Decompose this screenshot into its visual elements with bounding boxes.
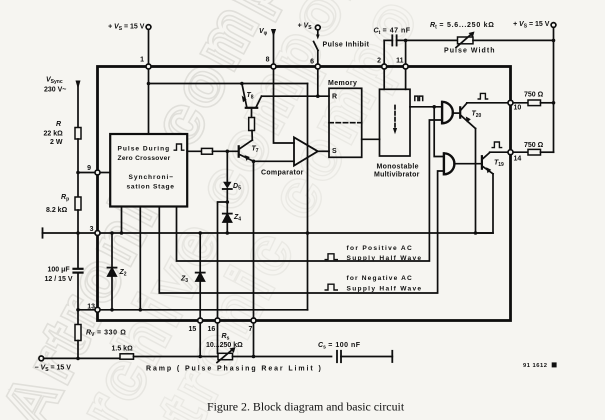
svg-text:100 μF: 100 μF — [48, 267, 71, 274]
svg-text:9: 9 — [87, 165, 91, 172]
Vphi terminal — [271, 29, 276, 37]
node junction pin15-rail — [198, 355, 202, 359]
wire pin 1 to sync stage top — [148, 68, 150, 134]
svg-text:10: 10 — [514, 105, 522, 112]
svg-text:Comparator: Comparator — [261, 170, 304, 177]
wire pin3 / emitter long line — [43, 232, 494, 234]
potentiometer Rs 10..250k — [218, 353, 233, 359]
svg-text:230 V~: 230 V~ — [44, 87, 66, 94]
zener Z2 — [111, 233, 113, 267]
svg-text:14: 14 — [514, 156, 522, 163]
terminal -Vs — [39, 356, 44, 361]
svg-text:13: 13 — [87, 304, 95, 311]
svg-text:2: 2 — [377, 58, 381, 65]
svg-text:1.5 kΩ: 1.5 kΩ — [112, 346, 134, 353]
wire switch to pin 6 — [317, 51, 319, 64]
capacitor Cs 100nF — [336, 351, 338, 362]
wire Cs to end — [341, 356, 392, 358]
synchronisation stage box — [110, 134, 187, 207]
wire sync bottom line 1 — [121, 207, 123, 234]
wire resistor to T7 base — [213, 150, 239, 152]
monostable box — [380, 89, 411, 156]
svg-text:Monostable: Monostable — [377, 164, 419, 171]
potentiometer Rt pulse width — [458, 37, 474, 44]
wire pin1 branch vertical down to pin13 net — [307, 84, 309, 310]
AND gate G1 — [442, 102, 453, 124]
node junction crossing blob — [306, 231, 310, 235]
node junction sync line1 — [120, 231, 124, 235]
wire pin 14 to 750 resistor — [512, 151, 528, 153]
mark registered dot — [552, 362, 557, 367]
pin 1 — [146, 64, 151, 69]
svg-text:10...250 kΩ: 10...250 kΩ — [206, 342, 243, 349]
resistor Rp 8.2k — [75, 197, 81, 210]
node junction D5 top — [226, 150, 230, 154]
pin 2 — [382, 64, 387, 69]
wire sync bottom line 4 to positive bus — [177, 120, 443, 261]
wire to pin 9 — [78, 172, 95, 174]
wire pin 8 down to comparator — [274, 68, 295, 143]
wire gate2 top input feed — [434, 107, 444, 157]
svg-text:6: 6 — [310, 59, 314, 66]
watermark diagonal outline text — [0, 0, 432, 420]
AND gate G2 — [444, 153, 455, 174]
svg-text:Zero Crossover: Zero Crossover — [118, 155, 171, 162]
capacitor 100uF electrolytic — [74, 268, 83, 270]
Vsync terminal — [76, 81, 81, 90]
svg-text:12 / 15 V: 12 / 15 V — [45, 276, 73, 283]
wire T19 emitter down and left — [476, 174, 494, 233]
wire T7 emitter down to pin 7 — [253, 161, 255, 318]
zener Z3 — [199, 233, 201, 272]
dashed divider memory — [329, 122, 362, 124]
wire pin 7 below box to rail — [253, 323, 255, 357]
svg-text:15: 15 — [189, 326, 197, 333]
wire to Rv — [77, 310, 79, 325]
pin 16 — [215, 318, 220, 323]
IC outline main box — [98, 67, 511, 321]
resistor sync output — [202, 148, 213, 154]
sync output wire — [187, 150, 201, 152]
node junction pin6-R — [316, 94, 320, 98]
pulse glyph negative bus — [325, 284, 339, 290]
svg-text:22 kΩ: 22 kΩ — [44, 131, 64, 138]
node junction pin11-Ct — [404, 39, 408, 43]
dashed arrow inside monostable — [394, 106, 396, 129]
svg-text:16: 16 — [208, 326, 216, 333]
svg-text:750 Ω: 750 Ω — [524, 92, 544, 99]
resistor Rv 330 — [75, 325, 81, 341]
svg-text:Pulse Width: Pulse Width — [444, 48, 496, 55]
resistor 750 Ohm lower — [528, 149, 541, 155]
node junction pin9 branch — [76, 171, 80, 175]
wire pin 2 up to Ct — [383, 40, 385, 64]
node junction sync line2 bottom — [139, 308, 143, 312]
capacitor Ct 47nF — [391, 35, 393, 45]
wire T19 collector to pin 14 — [490, 151, 509, 153]
svg-text:sation Stage: sation Stage — [127, 183, 175, 190]
wire monostable output — [410, 106, 442, 108]
pin 13 — [95, 307, 100, 312]
wire rail to Rs — [134, 356, 219, 358]
node junction rail-750 — [552, 101, 556, 105]
wire G1 output to T20 — [452, 112, 459, 114]
wire sync bottom line 2 — [139, 207, 141, 310]
pin 7 — [251, 318, 256, 323]
resistor 750 Ohm upper — [528, 100, 541, 106]
wire Ct to Rt — [397, 39, 458, 41]
wire pin13 line — [78, 309, 308, 311]
node junction rail-Rt — [552, 39, 556, 43]
terminal end bar right — [391, 351, 393, 362]
svg-text:Pulse Inhibit: Pulse Inhibit — [323, 42, 370, 49]
switch pulse inhibit stub with arrow — [317, 30, 319, 36]
svg-text:for Positive AC: for Positive AC — [347, 245, 414, 252]
wire pin 11 up — [405, 40, 407, 64]
svg-text:Supply Half Wave: Supply Half Wave — [347, 255, 423, 262]
terminal end bar pin3 line — [42, 228, 44, 237]
op-amp comparator — [294, 137, 318, 165]
svg-text:Figure 2. Block diagram and b: Figure 2. Block diagram and basic circui… — [207, 400, 405, 414]
pulse glyph monostable output double — [415, 96, 423, 101]
node junction T20 emitter — [474, 231, 478, 235]
node junction Rv-rail — [76, 357, 80, 361]
svg-text:11: 11 — [396, 58, 404, 65]
wire pin 9 to sync stage — [100, 172, 110, 174]
wire pin 11 down to monostable — [405, 68, 407, 89]
pulse glyph T20 output — [478, 93, 489, 99]
svg-text:R: R — [56, 121, 61, 128]
wire T20 emitter down — [475, 129, 477, 234]
pulse glyph T19 output — [492, 142, 503, 148]
svg-text:2 W: 2 W — [50, 139, 63, 146]
memory box — [329, 88, 362, 157]
wire G2 output to T19 — [454, 163, 481, 165]
pin 10 — [508, 100, 513, 105]
zener Z4 — [223, 214, 232, 222]
pin 6 — [315, 64, 320, 69]
pin 14 — [508, 150, 513, 155]
wire Vphi to pin 8 — [273, 35, 275, 64]
svg-text:7: 7 — [249, 326, 253, 333]
transistor T20 — [459, 107, 461, 117]
+Vs inhibit terminal — [315, 25, 320, 30]
wire memory to monostable — [362, 138, 380, 140]
transistor T8 — [240, 82, 244, 86]
node junction gate feed — [432, 105, 436, 109]
svg-text:Memory: Memory — [328, 80, 357, 87]
resistor T8 emitter — [249, 118, 255, 131]
svg-text:Supply Half Wave: Supply Half Wave — [347, 285, 423, 292]
diode D5 — [226, 151, 228, 182]
wire pin 15 below box to rail — [199, 323, 201, 357]
svg-text:Pulse During: Pulse During — [118, 145, 171, 152]
wire R to Rp — [77, 139, 79, 197]
svg-text:Synchroni−: Synchroni− — [129, 174, 175, 181]
+Vs=15V supply terminal top-left — [146, 25, 151, 30]
pin 3 — [95, 231, 100, 236]
wire pin 10 to 750 resistor — [512, 102, 528, 104]
wire sync bottom line 3 to negative bus — [159, 171, 444, 293]
resistor R 22k 2W — [75, 128, 81, 140]
transistor T19 — [481, 156, 483, 169]
wire pin 6 down to R line — [317, 68, 319, 96]
node junction pin1 branch — [147, 82, 151, 86]
node junction cap-Rv-pin13 — [76, 308, 80, 312]
svg-text:Ramp ( Pulse Phasing Rear: Ramp ( Pulse Phasing Rear Limit ) — [146, 366, 323, 373]
svg-text:1: 1 — [140, 57, 144, 64]
svg-text:R: R — [332, 94, 337, 101]
wire pin 16 below box to Rs — [217, 323, 219, 353]
pin 9 — [95, 170, 100, 175]
wire resistor to T7 collector — [251, 131, 253, 141]
wire T7 emitter to comparator — [254, 160, 295, 162]
svg-text:Multivibrator: Multivibrator — [374, 172, 420, 179]
pin 11 — [403, 64, 408, 69]
node junction Z3 top — [198, 231, 202, 235]
svg-text:8: 8 — [266, 57, 270, 64]
pin 15 — [198, 318, 203, 323]
svg-text:for Negative AC: for Negative AC — [347, 275, 413, 282]
wire Rv to -Vs rail — [77, 341, 79, 359]
switch blade — [314, 42, 318, 51]
+Vs=15V terminal top-right — [551, 23, 556, 28]
node junction Z2 top — [110, 231, 114, 235]
pulse glyph positive bus — [325, 254, 339, 260]
wire T20 collector to pin 10 — [467, 102, 509, 104]
resistor 1.5k — [120, 354, 134, 359]
wire capacitor to pin13 node — [77, 274, 79, 310]
wire chain to capacitor — [77, 233, 79, 268]
node junction Z2 bottom — [110, 308, 114, 312]
node junction chain-pin3 — [76, 231, 80, 235]
node junction D5-Z4 — [226, 200, 230, 204]
wire +Vs rail down — [553, 27, 555, 152]
svg-text:91 1612: 91 1612 — [523, 363, 547, 369]
node junction pin7-rail — [252, 355, 256, 359]
node junction T7 emitter — [252, 160, 256, 164]
wire comparator output to memory S — [318, 150, 329, 152]
wire Rs to pin7 node — [233, 356, 332, 358]
svg-text:S: S — [332, 148, 337, 155]
pulse glyph sync box — [174, 144, 185, 150]
svg-text:8.2 kΩ: 8.2 kΩ — [46, 207, 68, 214]
svg-text:3: 3 — [90, 226, 94, 233]
transistor T7 — [238, 146, 240, 156]
wire Rt to +Vs rail — [473, 39, 554, 41]
wire Rp to pin3 line — [77, 210, 79, 233]
node junction Z4 bottom — [226, 231, 230, 235]
wire pin 16 chain from D5 branch — [218, 202, 228, 318]
wire T8 collector to memory R input — [262, 95, 330, 97]
wire -Vs rail left segment — [44, 357, 120, 359]
wire Vsync to R — [77, 87, 79, 128]
wire +Vs to pin 1 — [148, 29, 150, 64]
wire pin1 branch horizontal — [149, 83, 308, 85]
wire pin 2 down to monostable — [383, 68, 385, 89]
pin 8 — [271, 64, 276, 69]
svg-text:750 Ω: 750 Ω — [524, 142, 544, 149]
